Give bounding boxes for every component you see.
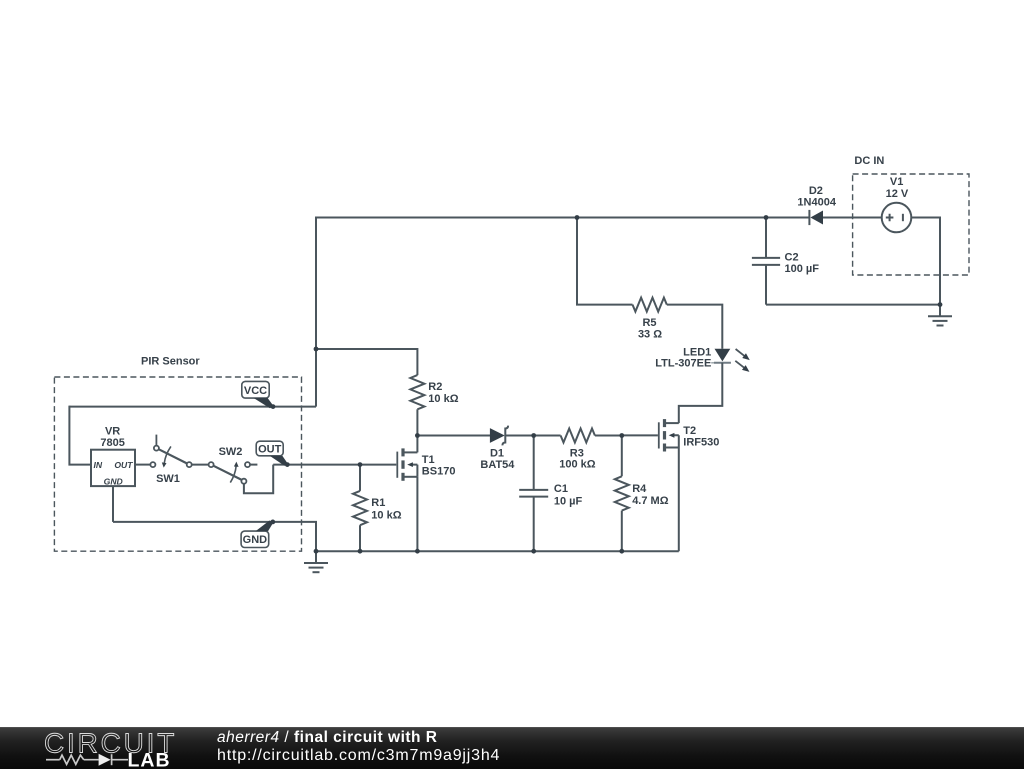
- wire R4 top lead: [621, 436, 623, 477]
- resistor R3: [561, 429, 595, 443]
- svg-text:GND: GND: [104, 477, 123, 487]
- PIR Sensor dashed box: [54, 377, 301, 551]
- svg-text:4.7 MΩ: 4.7 MΩ: [632, 495, 669, 507]
- svg-text:SW2: SW2: [219, 446, 243, 458]
- svg-text:12 V: 12 V: [886, 188, 909, 200]
- node R3 R4 gate: [619, 433, 624, 438]
- DC IN dashed box: [853, 174, 969, 275]
- node OUT flag: [285, 462, 290, 467]
- wire R4 bottom lead: [621, 511, 623, 552]
- wire node to D1 anode: [417, 435, 490, 437]
- wire LED to T2 drain: [679, 363, 723, 423]
- wire bottom right rail: [766, 304, 940, 306]
- svg-text:C2: C2: [785, 252, 799, 264]
- svg-text:DC IN: DC IN: [854, 155, 884, 167]
- svg-text:7805: 7805: [100, 437, 124, 449]
- wire left vertical VCC riser: [315, 217, 317, 407]
- svg-text:33 Ω: 33 Ω: [638, 328, 662, 340]
- node VCC riser R2: [314, 347, 319, 352]
- svg-text:D1: D1: [490, 447, 504, 459]
- svg-text:D2: D2: [809, 185, 823, 197]
- transistor T1: [397, 448, 417, 480]
- switch SW1: [150, 435, 191, 468]
- wire R3 to T2 gate node: [595, 435, 622, 437]
- svg-text:100 µF: 100 µF: [785, 263, 820, 275]
- ground right: [928, 305, 952, 326]
- svg-text:SW1: SW1: [156, 473, 180, 485]
- node rail R4: [619, 549, 624, 554]
- svg-text:LAB: LAB: [128, 750, 171, 769]
- wire SW2 tip route to OUT: [244, 465, 273, 494]
- wire C1 top lead: [533, 436, 535, 490]
- wire T2 gate: [622, 434, 658, 436]
- wire top rail: [316, 217, 809, 219]
- node top rail C2: [764, 215, 769, 220]
- svg-text:GND: GND: [243, 534, 268, 546]
- wire R1 top lead: [359, 465, 361, 491]
- wire VCC horizontal: [69, 406, 316, 408]
- node top rail R5: [575, 215, 580, 220]
- wire VR OUT stub: [135, 464, 150, 466]
- wire GND horizontal: [113, 522, 316, 551]
- wire C1 bottom lead: [533, 497, 535, 552]
- node D1 C1: [531, 433, 536, 438]
- wire VCC drop to VR IN: [69, 406, 91, 465]
- capacitor C2 leads: [765, 218, 767, 305]
- tag VCC: [242, 381, 274, 408]
- svg-text:R5: R5: [642, 317, 656, 329]
- transistor T2: [659, 419, 679, 451]
- svg-text:OUT: OUT: [258, 443, 282, 455]
- wire R2 bottom lead: [416, 409, 418, 435]
- resistor R2: [410, 375, 424, 409]
- switch SW2: [209, 462, 250, 484]
- wire bottom rail: [316, 550, 679, 552]
- wire R5 right lead to LED: [667, 305, 723, 349]
- svg-text:T2: T2: [683, 425, 696, 437]
- svg-text:V1: V1: [890, 176, 903, 188]
- capacitor C2: [752, 258, 780, 265]
- svg-text:IN: IN: [94, 460, 103, 470]
- tag GND: [241, 521, 273, 548]
- svg-text:10 µF: 10 µF: [554, 495, 583, 507]
- node GND flag: [270, 520, 275, 525]
- svg-text:BS170: BS170: [422, 466, 456, 478]
- wire V1 to ground corner: [911, 218, 940, 305]
- wire R5 riser and left lead: [577, 218, 633, 305]
- svg-text:1N4004: 1N4004: [797, 197, 836, 209]
- node VCC flag: [271, 404, 276, 409]
- svg-text:10 kΩ: 10 kΩ: [428, 393, 458, 405]
- svg-text:LED1: LED1: [683, 347, 711, 359]
- wire T2 source to rail: [678, 448, 680, 552]
- wire SW2 open stub: [250, 464, 257, 466]
- resistor R5: [633, 298, 667, 312]
- svg-text:LTL-307EE: LTL-307EE: [655, 358, 711, 370]
- svg-text:R1: R1: [371, 497, 385, 509]
- svg-text:BAT54: BAT54: [480, 459, 515, 471]
- resistor R1: [353, 491, 367, 525]
- CircuitLab logo: [0, 728, 200, 769]
- node V1 ground: [938, 302, 943, 307]
- resistor R4: [615, 476, 629, 510]
- wire VR GND drop: [112, 486, 114, 522]
- ground left: [304, 551, 328, 572]
- svg-text:10 kΩ: 10 kΩ: [371, 509, 401, 521]
- wire T1 source to rail: [416, 477, 418, 551]
- svg-text:100 kΩ: 100 kΩ: [559, 459, 596, 471]
- node rail GND: [314, 549, 319, 554]
- node rail T1: [415, 549, 420, 554]
- tag OUT: [256, 441, 288, 466]
- node rail R1: [358, 549, 363, 554]
- svg-text:R2: R2: [428, 381, 442, 393]
- node T1 drain: [415, 433, 420, 438]
- svg-text:R4: R4: [632, 483, 647, 495]
- svg-text:C1: C1: [554, 483, 568, 495]
- wire SW1 to SW2: [192, 464, 209, 466]
- svg-text:T1: T1: [422, 454, 435, 466]
- wire D2 anode to V1: [823, 217, 882, 219]
- svg-text:PIR Sensor: PIR Sensor: [141, 356, 200, 368]
- wire D1 cathode to R3: [505, 435, 560, 437]
- svg-text:IRF530: IRF530: [683, 436, 719, 448]
- svg-text:OUT: OUT: [114, 460, 133, 470]
- node R1 gate: [358, 462, 363, 467]
- diode D1: [490, 426, 508, 446]
- diode D2: [809, 210, 823, 225]
- wire R1 bottom lead: [359, 525, 361, 551]
- LED1: [711, 347, 751, 375]
- svg-text:VCC: VCC: [244, 385, 267, 397]
- capacitor C1: [519, 490, 548, 497]
- svg-text:VR: VR: [105, 425, 120, 437]
- wire R2 branch horizontal: [316, 349, 417, 375]
- regulator VR box: [91, 450, 135, 486]
- node rail C1: [531, 549, 536, 554]
- wire T1 drain to node: [416, 436, 418, 453]
- voltage source V1: [882, 203, 912, 233]
- wire OUT to T1 gate: [273, 464, 396, 466]
